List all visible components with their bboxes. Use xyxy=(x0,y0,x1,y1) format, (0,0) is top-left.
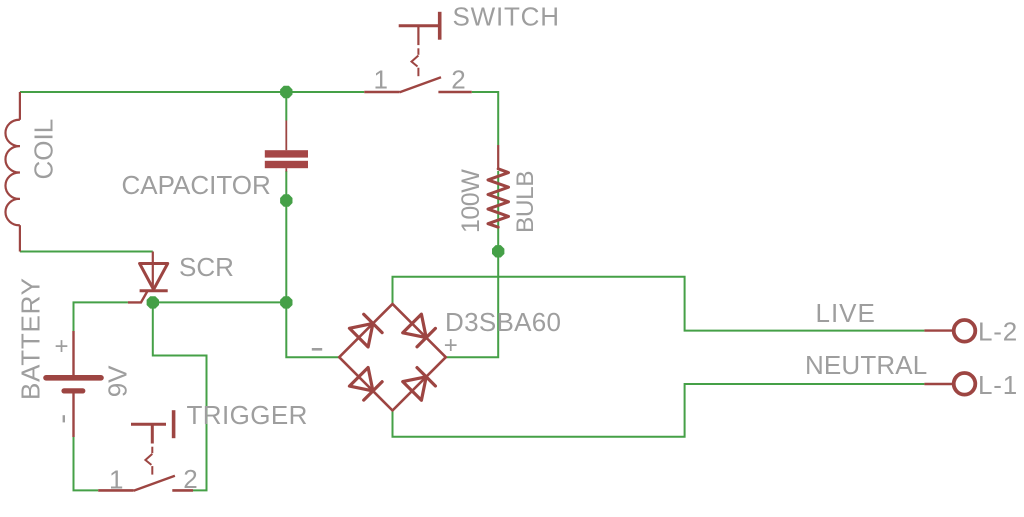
svg-text:COIL: COIL xyxy=(29,119,59,180)
junction bridge left feed xyxy=(280,296,292,308)
wire gate to battery plus xyxy=(74,302,128,331)
wire battery minus to trigger pin1 xyxy=(74,437,99,490)
wire top rail xyxy=(20,91,364,93)
diode lower-left xyxy=(349,367,372,390)
switch SWITCH (pins 1,2) xyxy=(364,12,471,93)
capacitor CAPACITOR xyxy=(265,150,308,168)
wire coil bottom xyxy=(20,251,153,253)
bridge rectifier D3SBA60 xyxy=(339,304,446,411)
wire scr row xyxy=(153,301,286,303)
wire capacitor bottom column xyxy=(285,171,287,302)
svg-text:100W: 100W xyxy=(457,169,485,233)
junction capacitor bottom xyxy=(280,194,292,206)
label battery minus xyxy=(63,415,65,422)
svg-text:1: 1 xyxy=(109,465,123,495)
diode lower-right xyxy=(403,377,426,400)
diode upper-right xyxy=(403,314,426,337)
junction top rail / capacitor xyxy=(280,86,292,98)
svg-text:BULB: BULB xyxy=(512,171,539,233)
label bridge minus xyxy=(312,348,322,351)
junction bulb bottom xyxy=(492,245,504,257)
svg-text:BATTERY: BATTERY xyxy=(16,277,46,400)
thyristor SCR xyxy=(128,252,168,303)
svg-text:9V: 9V xyxy=(103,365,133,397)
junction scr cathode xyxy=(147,296,159,308)
svg-text:L-2: L-2 xyxy=(978,317,1018,347)
svg-text:+: + xyxy=(444,332,458,359)
wire capacitor top pin stub xyxy=(285,92,287,121)
svg-text:CAPACITOR: CAPACITOR xyxy=(122,170,271,200)
push button TRIGGER (pins 1,2) xyxy=(98,410,193,491)
terminal L-2 xyxy=(924,320,975,342)
svg-text:D3SBA60: D3SBA60 xyxy=(445,307,561,337)
svg-text:2: 2 xyxy=(451,65,465,95)
resistor 100W BULB xyxy=(488,145,509,227)
wire trigger right loop xyxy=(153,302,207,490)
svg-text:2: 2 xyxy=(183,464,197,494)
svg-text:SCR: SCR xyxy=(179,252,234,282)
wire bulb column to bridge right vertex xyxy=(446,171,498,357)
svg-text:1: 1 xyxy=(374,65,388,95)
svg-text:LIVE: LIVE xyxy=(816,298,876,328)
diode upper-left xyxy=(349,323,372,346)
inductor COIL xyxy=(5,92,19,252)
svg-text:TRIGGER: TRIGGER xyxy=(187,400,308,430)
wire neutral xyxy=(393,384,925,437)
wire live xyxy=(393,277,925,331)
terminal L-1 xyxy=(924,373,975,395)
wire switch to bulb corner xyxy=(472,92,499,145)
wire bridge left feed xyxy=(286,302,339,357)
svg-text:+: + xyxy=(55,333,69,360)
battery BATTERY 9V xyxy=(46,331,101,437)
svg-text:NEUTRAL: NEUTRAL xyxy=(805,350,927,380)
svg-text:L-1: L-1 xyxy=(978,370,1018,400)
svg-text:SWITCH: SWITCH xyxy=(453,2,560,32)
